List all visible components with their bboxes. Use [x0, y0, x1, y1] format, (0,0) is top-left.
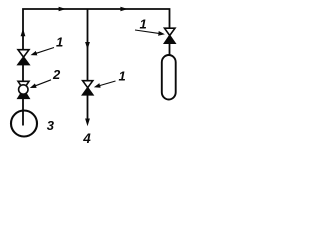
svg-text:1: 1 — [140, 16, 147, 31]
svg-text:3: 3 — [47, 118, 55, 133]
svg-text:4: 4 — [82, 131, 91, 146]
svg-text:1: 1 — [119, 68, 126, 83]
svg-text:1: 1 — [56, 34, 63, 49]
svg-text:2: 2 — [52, 67, 61, 82]
